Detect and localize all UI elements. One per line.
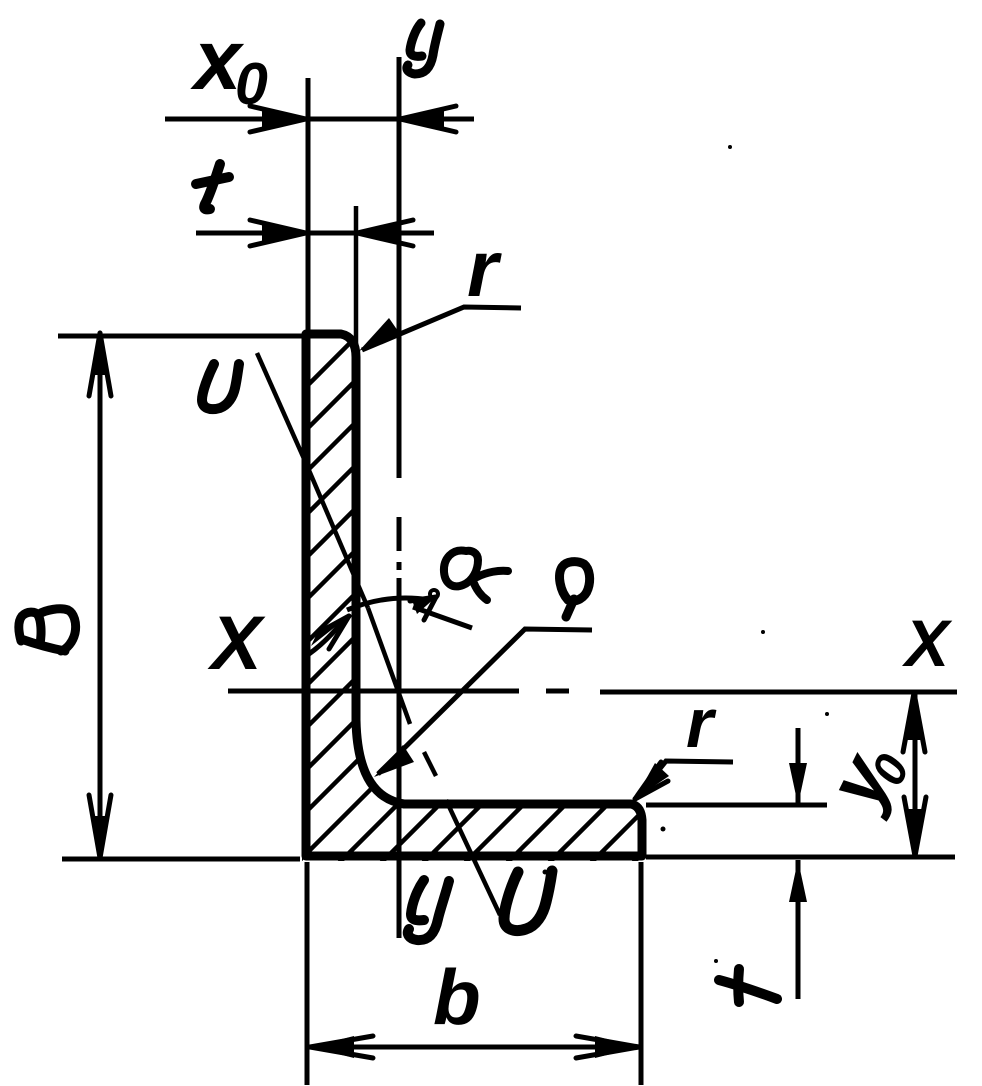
arrow y0 down <box>906 809 924 856</box>
arrow t right-pointing <box>262 222 306 244</box>
wire: inner-edge witness line above profile <box>354 206 359 344</box>
dimension t (top) line <box>196 231 434 236</box>
dimension y0 line <box>913 693 918 856</box>
dimension t (right) upper line <box>796 728 801 805</box>
arrow x0 right-pointing <box>262 108 306 130</box>
svg-text:X: X <box>207 601 266 686</box>
speck near t label <box>714 959 718 963</box>
svg-text:0: 0 <box>235 51 268 117</box>
label B (rotated, hand-drawn) <box>19 609 76 651</box>
svg-text:X: X <box>901 606 953 680</box>
dimension x0 line <box>165 117 474 122</box>
speck <box>728 145 732 149</box>
arrow t right dim down <box>789 763 807 805</box>
arrow y0 up <box>905 693 923 740</box>
leader r (right) <box>637 761 733 797</box>
arrow b right <box>595 1036 639 1058</box>
speck <box>761 630 765 634</box>
svg-text:r: r <box>467 224 502 313</box>
dimension B witness bottom <box>62 857 300 862</box>
wire: leg-top extension right <box>646 803 827 808</box>
arrow B down <box>91 816 109 858</box>
label U (top) <box>202 364 239 409</box>
svg-text:b: b <box>433 953 481 1041</box>
axis y (dash-dot vertical) <box>397 57 402 938</box>
label y0 (rotated) <box>808 729 919 826</box>
speck <box>543 870 548 875</box>
angle alpha arrow left <box>311 616 349 646</box>
angle alpha arc tail <box>309 621 343 654</box>
arrow R <box>374 745 414 777</box>
arrow b left <box>310 1036 354 1058</box>
label alpha <box>444 551 508 600</box>
arrow B up <box>91 333 109 375</box>
angle alpha arc <box>347 598 430 610</box>
axis U (diagonal principal axis) <box>257 353 500 915</box>
angle alpha arrow right tip circle <box>430 590 438 598</box>
arrow t left-pointing <box>357 222 401 244</box>
dimension b witness left <box>305 862 310 1085</box>
speck <box>825 712 829 716</box>
leader R <box>378 629 592 774</box>
angle alpha arrow right <box>412 597 436 614</box>
dimension B witness top <box>58 334 303 339</box>
dimension b witness right <box>639 862 644 1085</box>
arrow t right dim up <box>789 860 807 902</box>
svg-text:r: r <box>686 684 717 762</box>
arrow r (right) <box>635 763 669 799</box>
dimension b line <box>310 1045 639 1050</box>
label t (right, rotated) <box>719 969 777 1002</box>
axis X (dash-dot horizontal) <box>228 691 957 692</box>
label U (bottom) <box>504 871 552 931</box>
label R (hand-drawn) <box>560 562 590 617</box>
arrow x0 left-pointing <box>400 108 444 130</box>
wire: left-edge witness line above profile <box>306 78 311 332</box>
angle profile outline (thick) <box>306 334 642 856</box>
hatching of angle profile <box>280 0 700 1086</box>
label y (bottom) <box>408 880 449 940</box>
leader r (top) <box>362 307 521 350</box>
speck <box>661 827 666 832</box>
wire: bottom extension right <box>646 855 955 860</box>
arrow r (top) <box>359 318 400 351</box>
label y (top) <box>407 23 440 74</box>
label t (top) <box>196 164 229 209</box>
angle alpha arrow tail stroke <box>413 607 472 628</box>
dimension B line <box>98 333 103 858</box>
dimension t (right) lower line <box>796 860 801 999</box>
